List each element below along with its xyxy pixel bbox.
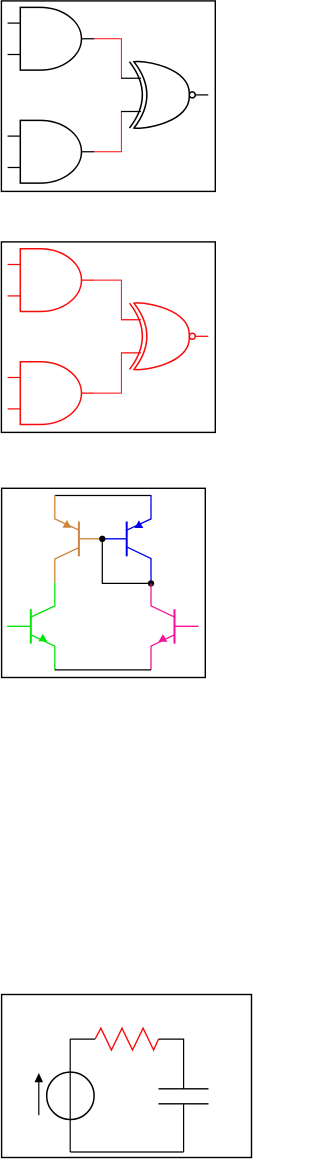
wire bottom rail <box>70 1151 183 1153</box>
U1 input pin b <box>8 54 21 56</box>
U2 input pin a <box>8 135 21 137</box>
node dot A (bases) <box>99 536 105 542</box>
current source I1 arrow head <box>35 1073 44 1082</box>
and gate U1 <box>20 7 81 70</box>
wire top left <box>70 1038 95 1040</box>
Q1 emitter arrow <box>63 520 72 528</box>
transistor Q2 (blue pnp) <box>102 495 151 583</box>
Q1 base lead <box>79 538 102 540</box>
U6 outer back arc <box>130 303 143 369</box>
Q4 base lead <box>175 625 199 627</box>
transistor Q4 (magenta npn) <box>151 583 199 670</box>
Q2 base lead <box>102 538 126 540</box>
node dot B <box>148 580 154 586</box>
wire top rail <box>55 495 151 497</box>
U3 output bubble <box>189 92 195 98</box>
Q1 emitter lead <box>55 548 79 583</box>
transistor Q1 (orange pnp) <box>55 495 103 583</box>
U4 input pin b <box>8 295 21 297</box>
Q1 collector lead <box>55 495 79 530</box>
frame panel 4 <box>2 995 252 1158</box>
xnor gate U6 (red) <box>130 303 196 370</box>
Q3 base lead <box>7 625 31 627</box>
capacitor C1 bottom plate <box>159 1103 209 1105</box>
Q3 emitter arrow <box>38 634 47 642</box>
U2 input pin b <box>8 167 21 169</box>
U2 output lead <box>82 151 95 153</box>
U1 output lead <box>82 38 95 40</box>
U3 body <box>134 62 189 129</box>
Q4 base bar <box>174 609 176 643</box>
U4 input pin a <box>8 264 21 266</box>
wire U5 out to U6 in2 <box>94 353 121 393</box>
frame panel 2 <box>1 242 215 433</box>
wire U4 out to U6 in1 <box>94 280 121 320</box>
wire top right <box>159 1039 184 1089</box>
U4 output lead <box>82 279 95 281</box>
transistor Q3 (green npn) <box>7 583 55 670</box>
Q2 emitter lead <box>127 495 151 530</box>
U5 output lead <box>82 392 95 394</box>
Q3 collector lead <box>31 583 55 618</box>
Q3 emitter lead <box>31 635 55 670</box>
Q4 collector lead <box>151 583 175 617</box>
U5 input pin b <box>8 408 21 410</box>
Q1 base bar <box>78 522 80 557</box>
U3 output lead <box>195 94 208 96</box>
capacitor C1 top plate <box>159 1088 209 1090</box>
wire bottom rail <box>55 669 151 671</box>
Q2 emitter arrow <box>135 520 144 528</box>
Q3 base bar <box>30 609 32 643</box>
and gate U5 (red) <box>20 362 81 425</box>
and gate U4 (red) <box>20 249 81 312</box>
wire left branch <box>69 1039 71 1152</box>
frame panel 3 <box>2 488 206 677</box>
Q4 emitter arrow <box>159 634 168 642</box>
node wire base junction to emitter junction <box>102 539 151 584</box>
U6 input stub 2 <box>121 352 141 354</box>
frame panel 1 <box>1 1 215 192</box>
Q2 collector lead <box>127 547 151 584</box>
U3 outer back arc <box>130 62 143 128</box>
wire U2 out to U3 in2 <box>94 112 121 152</box>
U6 body <box>134 303 189 370</box>
U6 output bubble <box>189 333 195 339</box>
and gate U2 <box>20 120 81 183</box>
U3 input stub 1 <box>121 77 141 79</box>
wire right bottom <box>183 1104 185 1152</box>
U1 input pin a <box>8 22 21 24</box>
current source I1 arrow shaft <box>38 1082 40 1115</box>
wire U1 out to U3 in1 <box>94 39 121 79</box>
current source I1 circle <box>47 1072 94 1119</box>
xnor gate U3 <box>130 62 196 129</box>
U6 input stub 1 <box>121 319 141 321</box>
U6 output lead <box>195 335 208 337</box>
resistor R1 (red zigzag) <box>95 1028 158 1050</box>
Q4 emitter lead <box>151 635 175 670</box>
U3 input stub 2 <box>121 111 141 113</box>
Q2 base bar <box>126 522 128 557</box>
U5 input pin a <box>8 377 21 379</box>
